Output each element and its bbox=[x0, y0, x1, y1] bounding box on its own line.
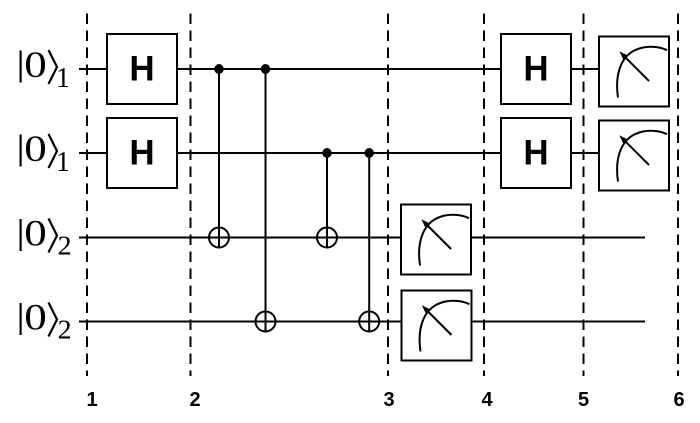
svg-text:0: 0 bbox=[24, 214, 47, 255]
step label 5 bbox=[578, 389, 589, 411]
Hadamard gate H wire 2 step 1 bbox=[107, 118, 177, 188]
svg-text:1: 1 bbox=[56, 147, 70, 178]
Hadamard gate H wire 1 step 1 bbox=[107, 34, 177, 104]
CNOT 4 control dot on wire 2 bbox=[365, 148, 374, 158]
step label 4 bbox=[481, 389, 493, 411]
svg-text:H: H bbox=[129, 50, 154, 89]
measurement meter wire 1 bbox=[599, 37, 669, 107]
Hadamard gate H wire 2 step 4 bbox=[501, 118, 571, 188]
step label 6 bbox=[673, 389, 684, 411]
svg-text:0: 0 bbox=[24, 129, 47, 170]
svg-text:1: 1 bbox=[86, 389, 97, 411]
svg-text:3: 3 bbox=[383, 389, 394, 411]
wire 3 segment b bbox=[471, 237, 645, 239]
CNOT 4 target on wire 4 bbox=[359, 312, 379, 332]
barrier dashed line 6 bbox=[677, 14, 679, 377]
barrier dashed line 4 bbox=[483, 14, 485, 377]
qubit label |0>_2 wire 3 bbox=[21, 214, 72, 261]
CNOT 1 vertical wire (q1 to q3) bbox=[218, 69, 220, 248]
wire 1 segment c bbox=[571, 68, 599, 70]
CNOT 3 control dot on wire 2 bbox=[322, 148, 331, 158]
wire 3 segment a bbox=[79, 237, 401, 239]
svg-text:1: 1 bbox=[56, 63, 70, 94]
qubit label |0>_1 wire 2 bbox=[21, 129, 70, 178]
CNOT 3 vertical wire (q2 to q3) bbox=[326, 153, 328, 248]
wire 2 segment c bbox=[571, 152, 599, 154]
measurement meter wire 4 bbox=[402, 291, 472, 361]
CNOT 4 vertical wire (q2 to q4) bbox=[368, 153, 370, 332]
CNOT 3 target on wire 3 bbox=[317, 228, 337, 248]
wire 4 segment a bbox=[79, 321, 401, 323]
svg-text:0: 0 bbox=[24, 298, 47, 339]
CNOT 2 control dot on wire 1 bbox=[261, 64, 270, 74]
wire 1 segment a bbox=[79, 68, 107, 70]
Hadamard gate H wire 1 step 4 bbox=[501, 34, 571, 104]
svg-text:2: 2 bbox=[58, 231, 72, 261]
wire 2 segment b bbox=[177, 152, 501, 154]
step label 3 bbox=[383, 389, 394, 411]
step label 2 bbox=[189, 389, 200, 411]
CNOT 2 vertical wire (q1 to q4) bbox=[265, 69, 267, 332]
measurement meter wire 2 bbox=[599, 121, 669, 191]
svg-text:0: 0 bbox=[24, 45, 47, 86]
wire 1 segment b bbox=[177, 68, 501, 70]
svg-text:6: 6 bbox=[673, 389, 684, 411]
barrier dashed line 1 bbox=[86, 14, 88, 377]
barrier dashed line 2 bbox=[190, 14, 192, 377]
qubit label |0>_1 wire 1 bbox=[21, 45, 70, 94]
wire 2 segment a bbox=[79, 152, 107, 154]
step label 1 bbox=[86, 389, 97, 411]
svg-text:H: H bbox=[523, 134, 548, 173]
qubit label |0>_2 wire 4 bbox=[21, 298, 72, 345]
CNOT 1 control dot on wire 1 bbox=[214, 64, 223, 74]
barrier dashed line 5 bbox=[583, 14, 585, 377]
svg-text:2: 2 bbox=[58, 315, 72, 345]
svg-text:H: H bbox=[523, 50, 548, 89]
CNOT 1 target on wire 3 bbox=[209, 228, 229, 248]
measurement meter wire 3 bbox=[401, 205, 471, 275]
CNOT 2 target on wire 4 bbox=[256, 312, 276, 332]
barrier dashed line 3 bbox=[387, 14, 389, 377]
svg-text:5: 5 bbox=[578, 389, 589, 411]
svg-text:H: H bbox=[129, 134, 154, 173]
wire 4 segment b bbox=[471, 321, 645, 323]
svg-text:2: 2 bbox=[189, 389, 200, 411]
svg-text:4: 4 bbox=[481, 389, 493, 411]
